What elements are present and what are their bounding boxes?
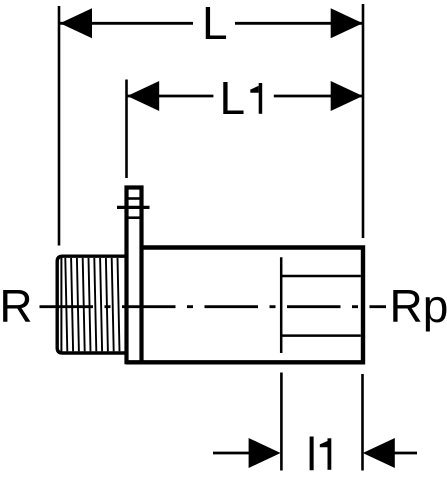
svg-text:L: L [220, 72, 246, 124]
svg-text:Rp: Rp [390, 280, 447, 332]
svg-text:L: L [202, 0, 228, 49]
svg-text:R: R [0, 280, 33, 332]
svg-text:l: l [307, 428, 317, 480]
